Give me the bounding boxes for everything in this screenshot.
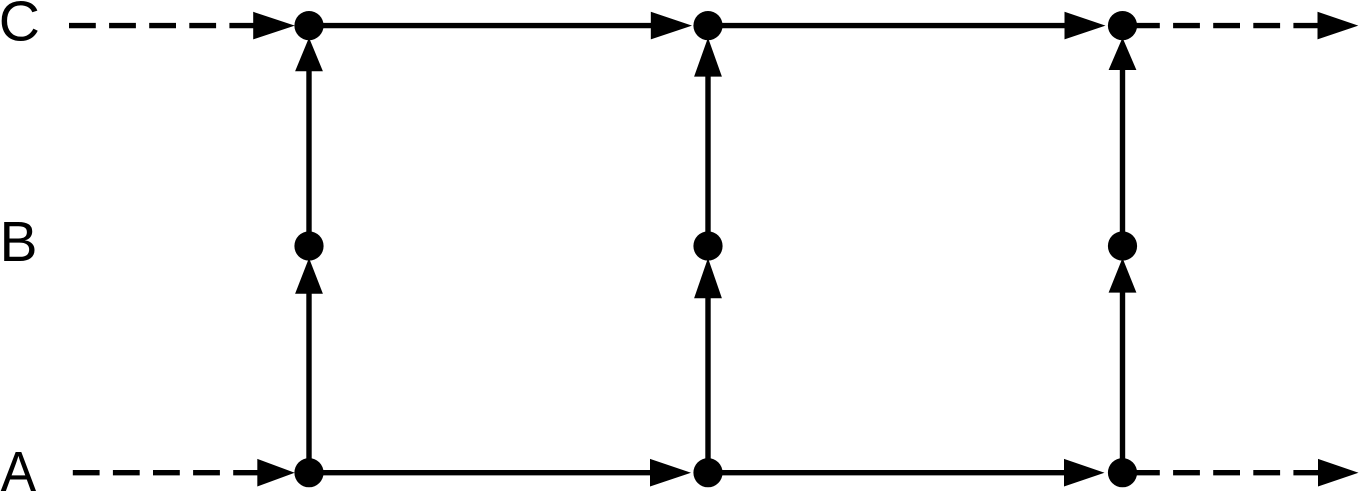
svg-text:A: A <box>1 440 37 492</box>
arrowhead into node C3 from below <box>1109 38 1137 70</box>
node C3 <box>1108 11 1137 40</box>
wire: row C left dashed line <box>69 23 255 28</box>
node C2 <box>693 11 722 40</box>
wire: row A right dashed line <box>1133 470 1320 475</box>
svg-text:C: C <box>0 0 40 54</box>
node B3 <box>1108 231 1137 260</box>
wire: column 2 segment B2-C2 <box>705 75 710 246</box>
node B2 <box>693 231 722 260</box>
node A3 <box>1108 458 1137 487</box>
wire: row A solid line A2-A3 <box>708 470 1066 475</box>
wire: column 2 segment A2-B2 <box>705 296 710 472</box>
wire: row C right dashed line <box>1133 23 1319 28</box>
arrowhead at right end of row A <box>1318 459 1359 487</box>
arrowhead into node A1 <box>257 459 294 487</box>
svg-text:B: B <box>0 210 38 274</box>
wire: column 1 segment A1-B1 <box>306 292 311 473</box>
wire: row A solid line A1-A2 <box>309 470 652 475</box>
arrowhead into node A3 <box>1064 459 1105 487</box>
node B1 <box>294 231 323 260</box>
node A1 <box>294 458 323 487</box>
arrowhead into node C2 <box>651 12 692 40</box>
wire: row C solid line C2-C3 <box>708 23 1067 28</box>
wire: row C solid line C1-C2 <box>309 23 653 28</box>
node A2 <box>693 458 722 487</box>
arrowhead at right end of row C <box>1318 12 1359 40</box>
wire: column 1 segment B1-C1 <box>306 69 311 246</box>
node C1 <box>294 11 323 40</box>
arrowhead into node C1 <box>253 12 295 40</box>
arrowhead into node C3 <box>1065 12 1106 40</box>
arrowhead into node A2 <box>650 459 691 487</box>
arrowhead into node B1 <box>295 258 323 294</box>
wire: column 3 segment A3-B3 <box>1120 291 1125 473</box>
arrowhead into node B2 <box>694 258 722 298</box>
arrowhead into node C1 from below <box>295 38 323 72</box>
arrowhead into node B3 <box>1109 258 1137 293</box>
wire: column 3 segment B3-C3 <box>1120 68 1125 246</box>
wire: row A left dashed line <box>73 470 259 475</box>
arrowhead into node C2 from below <box>694 38 722 77</box>
